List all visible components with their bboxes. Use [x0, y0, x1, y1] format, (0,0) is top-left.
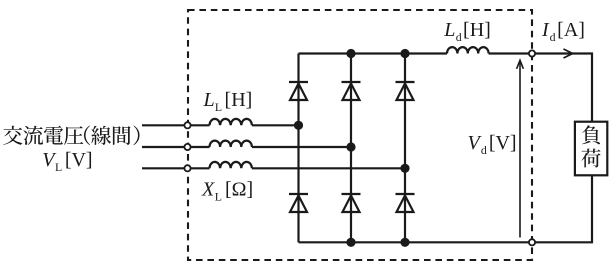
- junction dot top bus leg3: [400, 49, 409, 58]
- label char 流: [23, 126, 43, 145]
- junction dot bottom bus leg2: [346, 238, 355, 247]
- output terminal positive: [529, 50, 535, 56]
- junction dot phase1-leg1: [294, 121, 303, 130]
- label char 交: [3, 126, 22, 145]
- label char 圧: [64, 126, 83, 145]
- label char 線: [91, 126, 111, 145]
- diode D4 lower leg1: [289, 194, 308, 212]
- input terminal phase 1: [184, 122, 190, 128]
- inductor LL phase 1: [210, 119, 252, 125]
- inductor LL phase 3: [210, 162, 252, 168]
- wire: output line to load: [489, 54, 592, 122]
- junction dot phase3-leg3: [400, 164, 409, 173]
- diode D5 upper leg3: [396, 82, 415, 100]
- Id current arrow on output wire: [564, 49, 573, 58]
- diode D6 lower leg2: [342, 194, 361, 212]
- load label char 荷: [581, 149, 600, 168]
- svg-text:Ld[H]: Ld[H]: [443, 19, 490, 44]
- label char （: [84, 126, 90, 146]
- junction dot bottom bus leg3: [400, 238, 409, 247]
- junction dot top bus leg2: [346, 49, 355, 58]
- input terminal phase 2: [184, 144, 190, 150]
- diode D2 lower leg3: [396, 194, 415, 212]
- svg-text:Vd[V]: Vd[V]: [468, 132, 517, 157]
- load box: [575, 122, 607, 176]
- svg-text:XL[Ω]: XL[Ω]: [201, 178, 253, 203]
- label char 電: [44, 126, 63, 145]
- load label char 負: [582, 125, 600, 144]
- diode D1 upper leg1: [289, 82, 308, 100]
- inductor Ld: [447, 47, 489, 53]
- wire: top DC bus: [299, 52, 448, 54]
- svg-text:Id[A]: Id[A]: [541, 19, 585, 44]
- wire: bridge leg 1: [297, 54, 299, 243]
- label char 間: [113, 126, 131, 145]
- label: load kanji: [581, 125, 600, 167]
- Vd voltage arrow (pointing up): [517, 60, 524, 237]
- inductor LL phase 2: [210, 141, 252, 147]
- wire: bridge leg 3: [404, 54, 406, 243]
- svg-text:VL[V]: VL[V]: [42, 149, 92, 174]
- svg-text:LL[H]: LL[H]: [203, 89, 253, 114]
- label char ）: [134, 126, 140, 146]
- junction dot phase2-leg2: [346, 142, 355, 151]
- label: AC voltage (line-to-line) kanji: [3, 126, 139, 146]
- diode D3 upper leg2: [342, 82, 361, 100]
- wire: bridge leg 2: [350, 54, 352, 243]
- wire: phase 3 input line: [142, 167, 405, 169]
- wire: bottom DC bus and return to load: [299, 176, 593, 243]
- output terminal negative: [529, 239, 535, 245]
- dashed converter boundary: [188, 10, 532, 260]
- wire: phase 2 input line: [142, 146, 351, 148]
- input terminal phase 3: [184, 165, 190, 171]
- wire: phase 1 input line: [142, 124, 299, 126]
